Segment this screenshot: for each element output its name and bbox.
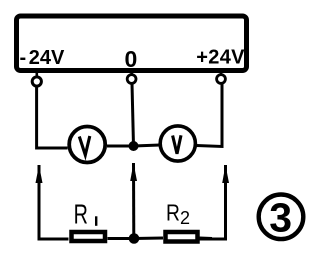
svg-text:2: 2	[180, 208, 190, 228]
arrowhead left	[36, 165, 43, 183]
wire V1 to junction	[107, 145, 134, 148]
stem T3	[220, 71, 223, 76]
junction node upper	[129, 141, 139, 151]
junction node lower	[129, 233, 140, 244]
resistor R2	[166, 232, 198, 242]
wire T1 to V1	[37, 86, 68, 148]
arrowhead middle	[130, 163, 137, 181]
voltmeter V1	[69, 127, 105, 163]
wire V2 to T3	[197, 84, 223, 147]
wire T2 down	[132, 84, 134, 147]
power supply box	[17, 16, 247, 71]
letter V of V1	[79, 136, 90, 155]
svg-text:+24V: +24V	[196, 46, 245, 68]
wire R1 to junction	[108, 237, 135, 240]
terminal T3	[217, 75, 226, 84]
resistor R1	[72, 232, 106, 241]
terminal T2	[127, 75, 136, 84]
letter V of V2	[173, 135, 181, 154]
svg-text:3: 3	[269, 195, 292, 241]
arrow wire middle	[132, 163, 135, 239]
arrow wire right	[200, 165, 226, 239]
figure number circle 3	[259, 195, 304, 240]
voltmeter V2	[160, 126, 195, 161]
stem T1	[35, 72, 38, 78]
wire R2 right	[200, 237, 213, 241]
wire junction to V2	[134, 145, 161, 146]
wire junction to R2	[134, 237, 163, 241]
svg-text:R: R	[74, 199, 88, 230]
svg-text:R: R	[166, 200, 180, 226]
terminal T1	[32, 77, 41, 86]
arrow wire left	[39, 165, 69, 239]
subscript 1 of R1	[95, 216, 97, 226]
arrowhead right	[222, 165, 229, 183]
stem T2	[130, 71, 133, 76]
svg-text:0: 0	[125, 46, 138, 72]
